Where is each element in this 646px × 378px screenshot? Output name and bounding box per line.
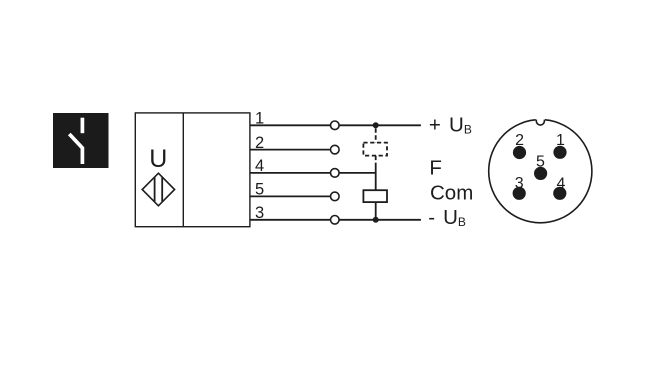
connector pin 2 <box>513 146 526 159</box>
connector face circle <box>489 120 592 223</box>
connector pin 1 <box>553 146 566 159</box>
switching function symbol black box <box>53 113 109 168</box>
svg-text:-: - <box>428 206 435 229</box>
dashed wire segment below suppressor <box>375 156 377 164</box>
svg-text:3: 3 <box>255 204 264 222</box>
svg-text:U: U <box>149 145 167 173</box>
svg-text:1: 1 <box>255 110 264 128</box>
svg-text:2: 2 <box>255 134 264 152</box>
wire 4 <box>250 172 376 174</box>
contact circle wire 2 <box>331 145 340 154</box>
junction node on +UB wire <box>373 122 379 128</box>
contact circle wire 5 <box>331 192 340 201</box>
svg-text:4: 4 <box>255 157 264 175</box>
optional suppressor (dashed box) <box>363 143 387 156</box>
connector pin 3 <box>513 187 526 200</box>
svg-text:4: 4 <box>557 176 566 193</box>
junction node on -UB wire <box>373 217 379 223</box>
svg-text:5: 5 <box>536 153 545 170</box>
svg-text:3: 3 <box>515 175 524 192</box>
resistor R <box>363 190 387 202</box>
voltage output diamond symbol <box>142 173 174 206</box>
svg-text:1: 1 <box>556 132 565 149</box>
svg-text:Com: Com <box>430 182 473 205</box>
wire 1 <box>250 124 421 126</box>
sensor divider <box>182 113 184 227</box>
wire 3 <box>250 219 421 221</box>
dashed wire segment above suppressor <box>375 128 377 142</box>
contact circle wire 3 <box>331 216 340 225</box>
svg-text:F: F <box>429 156 442 179</box>
vertical wire below resistor <box>375 202 377 220</box>
contact circle wire 1 <box>331 121 340 130</box>
connector pin 5 <box>534 167 547 180</box>
contact circle wire 4 <box>331 169 340 178</box>
svg-text:2: 2 <box>515 132 524 149</box>
vertical wire to resistor <box>375 164 377 190</box>
wire 2 <box>250 149 331 151</box>
NO contact symbol (white) <box>69 118 82 164</box>
connector keyway notch <box>536 118 545 125</box>
wire 5 <box>250 195 331 197</box>
sensor U1 outline <box>135 113 250 227</box>
connector pin 4 <box>553 187 566 200</box>
svg-text:5: 5 <box>255 181 264 199</box>
svg-text:+: + <box>429 113 441 136</box>
